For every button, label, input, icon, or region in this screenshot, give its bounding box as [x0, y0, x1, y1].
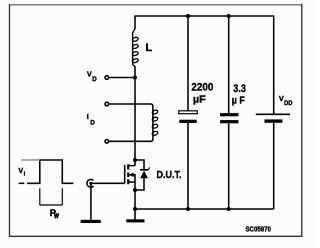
svg-text:L: L	[145, 42, 152, 54]
svg-text:D: D	[90, 119, 95, 126]
svg-text:3.3: 3.3	[233, 83, 246, 95]
svg-text:SC05970: SC05970	[246, 225, 271, 234]
svg-text:DD: DD	[284, 100, 293, 107]
svg-text:I: I	[87, 112, 89, 121]
svg-text:2200: 2200	[191, 81, 213, 93]
svg-text:µ F: µ F	[232, 96, 245, 107]
svg-text:D.U.T.: D.U.T.	[157, 170, 182, 181]
svg-text:µF: µF	[193, 95, 206, 106]
svg-text:D: D	[92, 76, 97, 83]
svg-text:W: W	[54, 213, 59, 220]
